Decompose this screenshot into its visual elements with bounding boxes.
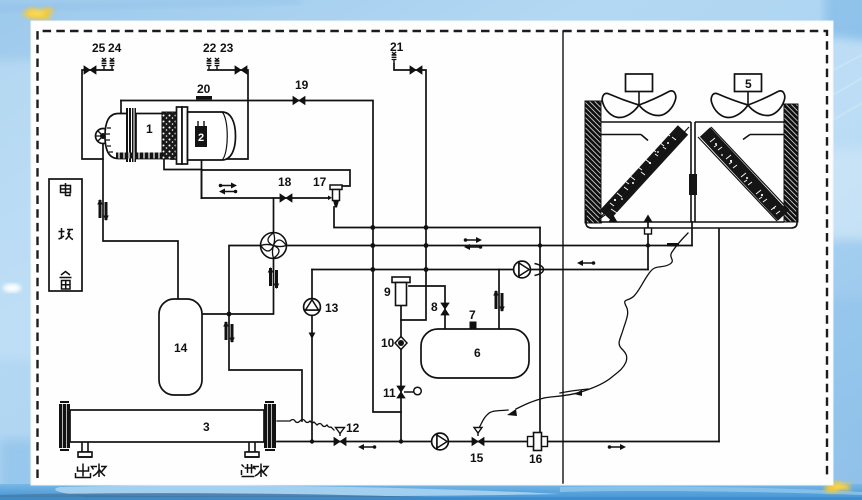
condenser drop connector foot bbox=[645, 228, 652, 234]
condenser right hatched side bar bbox=[784, 104, 798, 222]
compressor bottom hatch strip bbox=[116, 153, 164, 159]
valve 15 bbox=[472, 428, 484, 446]
flow arrow left of divider bbox=[577, 260, 595, 266]
compressor rear cylinder bbox=[188, 112, 236, 160]
flow arrows mid pair bbox=[464, 237, 482, 243]
wire compressor front drop to bottom corner bbox=[103, 143, 178, 299]
junction dots bbox=[227, 225, 651, 444]
condenser center damper block bbox=[689, 174, 697, 195]
wire oil return elbow bbox=[164, 157, 202, 170]
svg-text:15: 15 bbox=[470, 451, 484, 465]
section divider line bbox=[562, 31, 564, 483]
water pump bottom bbox=[432, 433, 449, 450]
svg-text:5: 5 bbox=[745, 77, 752, 91]
heat exchange box bbox=[202, 170, 351, 198]
svg-text:6: 6 bbox=[474, 346, 481, 360]
wire oil line 9 chain bbox=[400, 305, 402, 442]
compressor striped flange band bbox=[126, 108, 136, 162]
condenser support feet triangles bbox=[609, 215, 653, 223]
condenser fan left bbox=[602, 74, 676, 118]
liquid pump riser bbox=[311, 270, 313, 442]
filter 17 outlet line bbox=[334, 207, 540, 228]
svg-text:12: 12 bbox=[346, 421, 360, 435]
condenser center drop bbox=[691, 222, 693, 246]
yellow arrow bottom-right bbox=[824, 481, 852, 493]
svg-text:9: 9 bbox=[384, 285, 391, 299]
valve 8 branch bbox=[409, 286, 445, 329]
condenser coil right bbox=[698, 127, 789, 221]
oil pump 13 bbox=[304, 299, 321, 316]
safety valve 23 bbox=[215, 58, 220, 70]
svg-text:25: 25 bbox=[92, 41, 106, 55]
flow arrow near valve 12 bbox=[358, 444, 376, 450]
compressor motor dome bbox=[105, 114, 128, 159]
four-way valve bottom to tank line bbox=[201, 259, 274, 315]
valve on line 25/24 bbox=[84, 66, 96, 74]
svg-text:11: 11 bbox=[383, 386, 396, 400]
valve 18 bbox=[280, 194, 292, 202]
wire compressor top stub bbox=[120, 101, 122, 114]
evaporator shell and tube 3 bbox=[59, 402, 276, 457]
leader curve to valve 15 bbox=[479, 410, 508, 428]
svg-text:2: 2 bbox=[198, 132, 204, 144]
tank 6 accumulator bbox=[421, 322, 529, 379]
tank 6 inlet drop bbox=[498, 270, 500, 330]
flow arrow right section bottom bbox=[608, 444, 626, 450]
receiver tank 14 bbox=[159, 299, 202, 395]
filter drier 17 bbox=[328, 185, 342, 208]
wire relief valve group 25/24 to left drop bbox=[82, 70, 113, 159]
svg-text:1: 1 bbox=[146, 122, 153, 136]
svg-text:3: 3 bbox=[203, 420, 210, 434]
svg-text:20: 20 bbox=[197, 82, 211, 96]
safety valve 21 bbox=[392, 52, 397, 64]
safety valve 25 bbox=[102, 58, 107, 70]
wire relief valve group 22/23 drop bbox=[208, 70, 248, 101]
vibration absorber under 4-way bbox=[268, 267, 280, 289]
four-way right port line to condenser bbox=[287, 245, 693, 247]
svg-text:17: 17 bbox=[313, 175, 327, 189]
control box text 电控箱 vertical bbox=[59, 183, 74, 289]
bottom blue band bbox=[0, 484, 862, 500]
evaporator shell bbox=[70, 410, 264, 442]
wire relief valve 21 drop bbox=[394, 64, 426, 320]
compressor checkered block bbox=[162, 112, 176, 159]
vibration absorber on left drop bbox=[223, 321, 235, 343]
svg-text:23: 23 bbox=[220, 41, 234, 55]
vibration absorber tank6 inlet bbox=[493, 290, 505, 312]
main water line bottom bbox=[277, 441, 719, 443]
oil separator 9 bbox=[392, 277, 410, 306]
compressor main cylinder body bbox=[136, 114, 177, 159]
valve 19 bbox=[293, 97, 305, 105]
four-way valve top stub bbox=[273, 198, 275, 233]
flow switch 16 bbox=[528, 433, 548, 451]
condenser fan 5 bbox=[711, 74, 785, 118]
four-way left port drop bbox=[229, 246, 302, 422]
svg-text:21: 21 bbox=[390, 40, 404, 54]
check valve sight glass on suction bbox=[97, 199, 109, 221]
svg-text:24: 24 bbox=[108, 41, 122, 55]
number labels bbox=[92, 40, 752, 466]
thick flow dash on condenser line bbox=[667, 243, 679, 246]
valve on line 21 bbox=[410, 66, 422, 74]
svg-text:19: 19 bbox=[295, 78, 309, 92]
valve 12 motor valve bbox=[334, 428, 346, 446]
arrowhead on leader right bbox=[574, 390, 582, 396]
svg-text:7: 7 bbox=[469, 308, 476, 322]
wire suction drop to HX box bbox=[201, 147, 203, 198]
evaporator squiggle to valve 12 bbox=[277, 420, 334, 431]
electric control box bbox=[49, 179, 82, 291]
globe valve 11 bbox=[397, 386, 421, 398]
compressor motor terminal circle bbox=[96, 129, 111, 144]
hand-drawn leader curve bbox=[544, 233, 688, 398]
wire discharge top line bbox=[121, 101, 401, 413]
compressor double flange rings bbox=[177, 107, 183, 164]
pump header line bbox=[312, 269, 648, 271]
svg-text:14: 14 bbox=[174, 341, 188, 355]
safety valve 24 bbox=[110, 58, 115, 70]
svg-text:13: 13 bbox=[325, 301, 339, 315]
进水 inlet water label bbox=[242, 464, 269, 478]
safety valve 22 bbox=[207, 58, 212, 70]
svg-text:10: 10 bbox=[381, 336, 395, 350]
flow arrows in HX box bbox=[219, 183, 237, 189]
muffler bar 20 bbox=[196, 96, 212, 100]
condenser coil left bbox=[598, 127, 689, 223]
valve 8 bbox=[441, 303, 449, 315]
condenser left section drop bbox=[647, 222, 649, 270]
flex joint after pump bbox=[535, 264, 544, 276]
small down arrow under pump 13 bbox=[309, 324, 314, 338]
condenser left hatched side bar bbox=[585, 101, 601, 223]
four-way valve U-shape bbox=[261, 233, 287, 259]
compressor motor block 2 bbox=[195, 126, 207, 147]
white cloud dot left bbox=[3, 284, 21, 293]
condenser unit 4 bbox=[585, 74, 798, 234]
yellow arrow top-left bbox=[22, 7, 55, 20]
check valve 10 bbox=[395, 337, 407, 350]
CJK labels drawn as strokes bbox=[59, 183, 269, 478]
condenser frame lines bbox=[586, 122, 797, 228]
compressor unit 1 bbox=[96, 107, 236, 164]
arrowhead on leader at mid bbox=[507, 409, 517, 416]
svg-text:16: 16 bbox=[529, 452, 543, 466]
evaporator left end cap bbox=[59, 404, 70, 448]
wire filter drop crossing to device 16 bbox=[539, 228, 541, 434]
evaporator support legs bbox=[78, 442, 259, 457]
evaporator right end cap bbox=[264, 404, 276, 448]
refrigerant pump bbox=[514, 261, 531, 278]
valve on line 22/23 bbox=[235, 66, 247, 74]
svg-text:8: 8 bbox=[431, 300, 438, 314]
svg-text:18: 18 bbox=[278, 175, 292, 189]
svg-text:22: 22 bbox=[203, 41, 217, 55]
出水 outlet water label bbox=[76, 464, 107, 478]
wire compressor box bottom bbox=[171, 101, 248, 160]
condenser right downcomer bbox=[718, 229, 720, 442]
